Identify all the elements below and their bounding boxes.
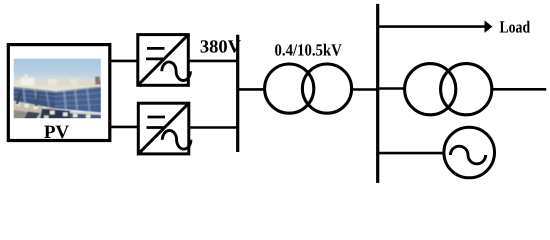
wire T1 to bus B2 xyxy=(352,88,379,91)
wire T2 to grid xyxy=(492,88,546,91)
inverter U2 DC line 2 xyxy=(147,126,164,129)
inverter U2 AC sine xyxy=(162,131,191,150)
load arrow wire xyxy=(378,25,486,28)
transformer T2 secondary circle xyxy=(441,64,492,115)
ground wedge with blocks xyxy=(14,101,56,119)
svg-text:Load: Load xyxy=(500,17,531,36)
wire bus B2 to transformer T2 xyxy=(378,87,406,90)
wire bus B2 to generator G1 xyxy=(378,152,445,155)
wire U1 to bus B1 xyxy=(188,60,239,63)
wire U2 to bus B1 xyxy=(189,126,239,129)
wire PV to inverter U2 xyxy=(110,126,138,129)
svg-text:PV: PV xyxy=(44,122,70,143)
inverter U2 box xyxy=(138,103,189,154)
svg-text:380V: 380V xyxy=(200,38,242,58)
generator G1 circle xyxy=(444,127,495,178)
front dark shadow xyxy=(40,109,72,120)
transformer T1 secondary circle xyxy=(302,64,351,113)
wire bus B1 to transformer T1 xyxy=(238,88,266,91)
inverter U1 DC line 1 xyxy=(147,47,165,50)
transformer T2 primary circle xyxy=(405,64,456,115)
PV photo xyxy=(14,59,102,120)
bus B2 xyxy=(376,4,379,183)
wire PV to inverter U1 xyxy=(110,60,138,63)
generator G1 sine xyxy=(450,146,485,164)
svg-text:0.4/10.5kV: 0.4/10.5kV xyxy=(275,41,343,60)
left solar array xyxy=(14,87,56,109)
PV box xyxy=(8,45,110,141)
transformer T1 primary circle xyxy=(265,64,314,113)
inverter U2 diagonal xyxy=(139,104,188,153)
front right panel row xyxy=(70,111,101,115)
inverter U2 DC line 1 xyxy=(148,116,166,119)
load arrowhead xyxy=(485,21,492,31)
inverter U1 box xyxy=(138,35,189,86)
right solar array xyxy=(55,86,101,112)
bus B1 xyxy=(236,35,239,152)
inverter U1 AC sine xyxy=(162,62,191,81)
inverter U1 DC line 2 xyxy=(146,58,163,61)
inverter U1 diagonal xyxy=(139,35,188,84)
